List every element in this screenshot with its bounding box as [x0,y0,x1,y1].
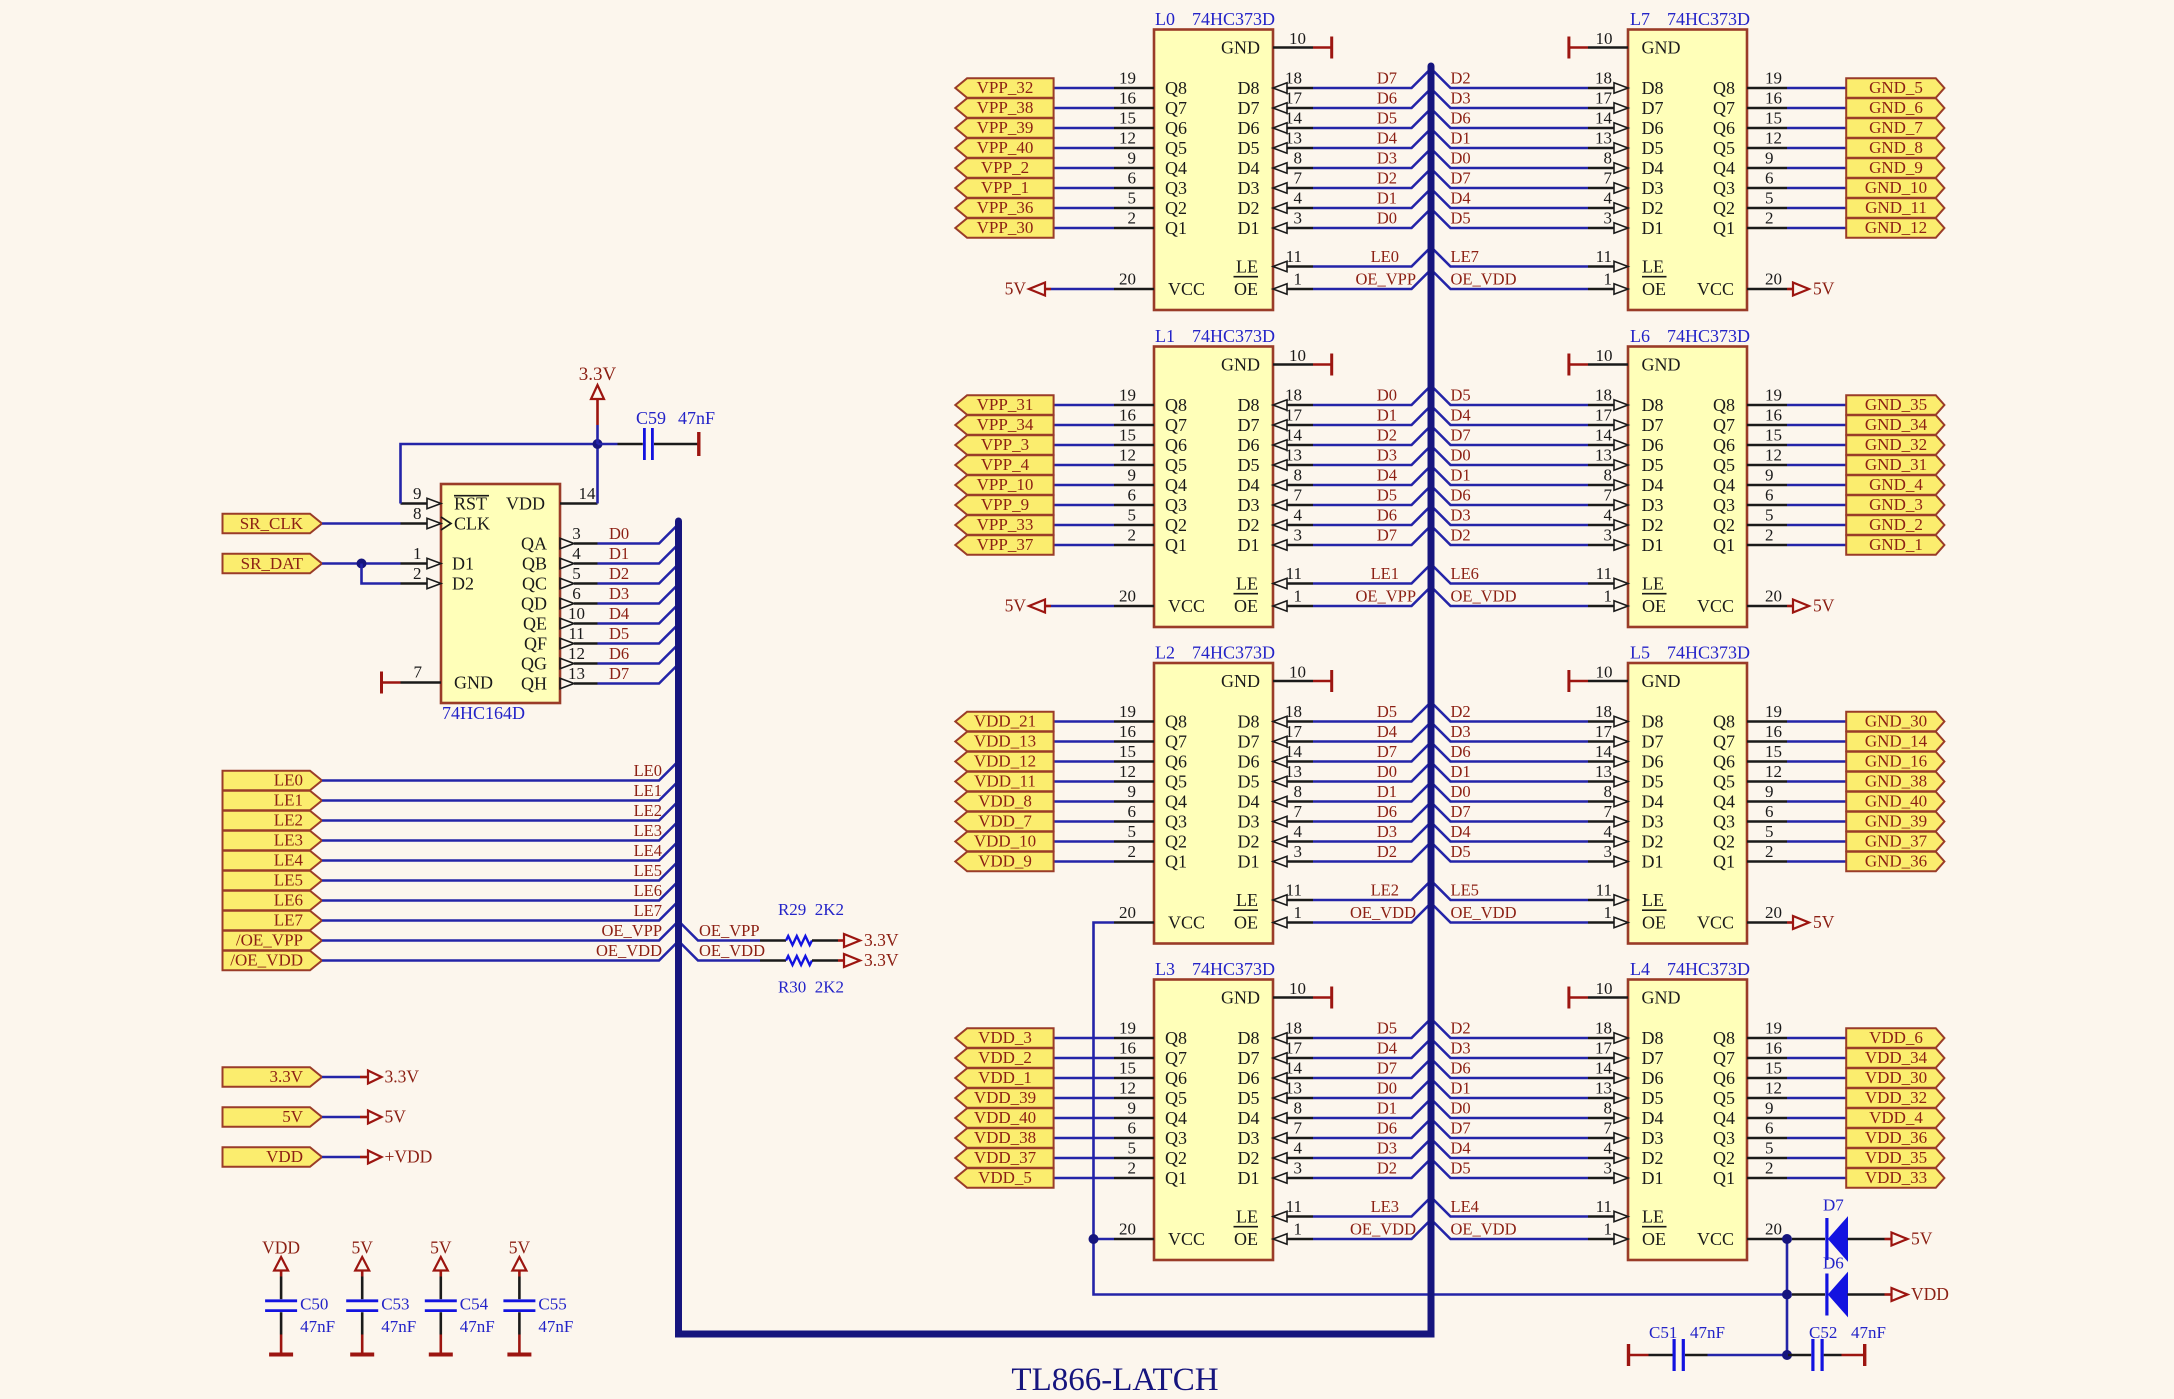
svg-text:D2: D2 [1238,1148,1260,1168]
L4 pin 20 VCC [1697,1220,1787,1249]
wire: L6.Q5 to flag GND_31 [1787,464,1846,467]
svg-text:3: 3 [1604,526,1613,545]
latch L2 74HC373D body [1154,643,1275,944]
svg-text:GND_30: GND_30 [1865,712,1927,731]
wire: flag VDD_7 to L2.Q3 [1054,820,1114,823]
flag LE1 [223,791,323,811]
wire net D0: L1.D8 to center bus [1313,386,1431,406]
capacitor C54 47nF [425,1277,495,1337]
svg-text:D8: D8 [1642,78,1664,98]
L7 pin 15 Q6 [1713,109,1787,138]
L6 pin 10 GND [1588,346,1681,374]
flag GND_8 [1846,138,1944,158]
svg-text:D6: D6 [1377,506,1397,525]
svg-text:6: 6 [1765,486,1774,505]
L7 pin 7 D3 (input arrow) [1588,169,1664,198]
svg-text:VPP_39: VPP_39 [977,118,1034,137]
junction: 3.3V node [593,439,603,449]
wire: L4.Q3 to flag VDD_36 [1787,1137,1846,1140]
svg-text:10: 10 [1596,29,1613,48]
wire: SR_DAT branch to D2 pin [362,564,401,584]
L4 pin 1 OE-bar (input arrow) [1588,1220,1667,1249]
svg-text:D0: D0 [609,524,629,543]
svg-text:D7: D7 [1451,1119,1471,1138]
svg-text:L7: L7 [1630,9,1650,29]
svg-text:LE5: LE5 [634,861,662,880]
L1 pin 14 D6 (input arrow) [1238,426,1314,455]
wire net LE6: center bus to L6.LE [1431,564,1588,584]
svg-text:GND: GND [1642,671,1681,691]
svg-text:GND_11: GND_11 [1865,198,1927,217]
svg-text:OE_VPP: OE_VPP [601,921,662,940]
flag GND_9 [1846,158,1944,178]
svg-text:74HC373D: 74HC373D [1192,643,1275,663]
power port 5V above C53 [352,1238,374,1277]
L0 pin 1 OE-bar (input arrow) [1234,270,1314,299]
74HC164D pin 8 CLK (input arrow + clock wedge) [401,504,491,534]
wire: RST pin to 3.3V node (loop over top) [401,444,598,504]
wire: SR_CLK to CLK pin [322,522,401,525]
L5 pin 11 LE (input arrow) [1588,881,1664,910]
svg-text:C51: C51 [1649,1323,1677,1342]
svg-text:GND_7: GND_7 [1869,118,1923,137]
L1 pin 16 Q7 [1114,406,1187,435]
L7 pin 18 D8 (input arrow) [1588,69,1664,98]
wire net D1: center bus to L4.D5 [1431,1079,1588,1099]
L2 pin 5 Q2 [1114,822,1187,851]
svg-text:13: 13 [568,664,585,683]
flag VPP_34 [955,415,1053,435]
svg-text:D6: D6 [1823,1254,1844,1273]
svg-text:VPP_3: VPP_3 [981,435,1029,454]
svg-text:Q8: Q8 [1165,1028,1187,1048]
L1 pin 15 Q6 [1114,426,1187,455]
wire net OE_VDD: center bus to L7.OE [1431,270,1588,290]
svg-text:OE_VDD: OE_VDD [1451,270,1517,289]
svg-text:D6: D6 [1238,435,1260,455]
svg-text:20: 20 [1119,587,1136,606]
svg-text:47nF: 47nF [300,1317,335,1336]
flag VDD_6 [1846,1028,1944,1048]
svg-text:D5: D5 [1238,138,1260,158]
svg-text:D3: D3 [1642,178,1664,198]
flag VDD_10 [955,832,1053,852]
svg-text:D4: D4 [1451,1139,1471,1158]
flag VPP_33 [955,515,1053,535]
svg-text:OE_VDD: OE_VDD [1451,903,1517,922]
svg-text:D7: D7 [1377,526,1397,545]
svg-text:D7: D7 [609,664,629,683]
wire net D0: L3.D5 to center bus [1313,1079,1431,1099]
svg-text:Q4: Q4 [1713,158,1735,178]
svg-text:20: 20 [1119,1220,1136,1239]
74HC164D pin 10 QE (output arrow) [523,604,598,633]
svg-text:17: 17 [1595,1039,1613,1058]
svg-text:D3: D3 [1642,811,1664,831]
flag /OE_VPP [223,931,323,951]
svg-text:D8: D8 [1642,1028,1664,1048]
svg-text:D2: D2 [609,564,629,583]
svg-text:3: 3 [1294,1159,1303,1178]
latch L7 74HC373D body [1628,9,1750,310]
L1 pin 11 LE (input arrow) [1236,564,1313,593]
flag GND_34 [1846,415,1944,435]
wire: L4.Q2 to flag VDD_35 [1787,1157,1846,1160]
svg-text:L2: L2 [1155,643,1175,663]
wire: flag VPP_31 to L1.Q8 [1054,404,1114,407]
svg-text:Q4: Q4 [1165,158,1187,178]
power port 5V at L5 VCC [1787,912,1835,932]
wire net D5: center bus to L7.D1 [1431,209,1588,229]
svg-text:16: 16 [1765,1039,1782,1058]
L0 pin 15 Q6 [1114,109,1187,138]
svg-text:D6: D6 [1377,89,1397,108]
flag GND_31 [1846,455,1944,475]
wire net OE_VDD: L2.OE to center bus [1313,903,1431,923]
svg-text:C54: C54 [460,1295,489,1314]
svg-text:5: 5 [1128,1139,1137,1158]
wire net D6: L2.D3 to center bus [1313,802,1431,822]
wire net D5: L1.D3 to center bus [1313,486,1431,506]
svg-text:20: 20 [1765,903,1782,922]
wire: C51 to C52 node [1708,1354,1787,1357]
flag LE4 [223,851,323,871]
svg-text:4: 4 [1294,506,1303,525]
svg-text:8: 8 [1294,782,1303,801]
svg-text:D3: D3 [1451,1039,1471,1058]
ground bar at C52 right [1842,1344,1865,1366]
svg-text:D7: D7 [1238,1048,1260,1068]
svg-text:D6: D6 [1451,742,1471,761]
svg-text:CLK: CLK [454,514,490,534]
svg-text:D3: D3 [1238,178,1260,198]
L0 pin 13 D5 (input arrow) [1238,129,1314,158]
svg-text:VPP_38: VPP_38 [977,98,1034,117]
capacitor C51 47nF [1649,1323,1725,1371]
wire net D3: center bus to L7.D7 [1431,89,1588,109]
svg-text:GND_39: GND_39 [1865,812,1927,831]
L3 pin 9 Q4 [1114,1099,1187,1128]
svg-text:Q6: Q6 [1165,118,1187,138]
wire: L5.Q2 to flag GND_37 [1787,840,1846,843]
svg-text:D5: D5 [1377,1019,1397,1038]
svg-text:15: 15 [1765,1059,1782,1078]
svg-text:OE: OE [1234,596,1258,616]
L4 pin 15 Q6 [1713,1059,1787,1088]
L6 pin 20 VCC [1697,587,1787,616]
svg-text:LE5: LE5 [1451,881,1479,900]
ground bar at L2 pin 10 [1313,670,1332,692]
svg-text:VCC: VCC [1168,912,1205,932]
svg-text:8: 8 [1294,149,1303,168]
svg-text:Q7: Q7 [1165,98,1187,118]
svg-text:C59: C59 [636,408,666,428]
svg-text:D3: D3 [1451,89,1471,108]
svg-text:VDD: VDD [266,1147,303,1166]
wire: L5.Q3 to flag GND_39 [1787,820,1846,823]
flag VDD_7 [955,812,1053,832]
L3 pin 4 D2 (input arrow) [1238,1139,1314,1168]
svg-text:14: 14 [579,484,597,503]
wire: flag VDD_39 to L3.Q5 [1054,1097,1114,1100]
svg-text:D4: D4 [1377,1039,1397,1058]
svg-text:5V: 5V [352,1238,374,1258]
svg-text:GND_35: GND_35 [1865,395,1927,414]
wire net D4: L0.D5 to center bus [1313,129,1431,149]
svg-text:Q7: Q7 [1713,415,1735,435]
wire: L4.Q4 to flag VDD_4 [1787,1117,1846,1120]
L1 pin 19 Q8 [1114,386,1187,415]
wire: flag VPP_33 to L1.Q2 [1054,524,1114,527]
svg-text:74HC373D: 74HC373D [1192,326,1275,346]
L2 pin 1 OE-bar (input arrow) [1234,903,1314,932]
L5 pin 8 D4 (input arrow) [1588,782,1664,811]
svg-text:Q8: Q8 [1165,711,1187,731]
wire: flag VPP_38 to L0.Q7 [1054,107,1114,110]
svg-text:D5: D5 [1642,455,1664,475]
L0 pin 12 Q5 [1114,129,1187,158]
flag VDD_3 [955,1028,1053,1048]
svg-text:D2: D2 [1238,515,1260,535]
svg-text:Q1: Q1 [1713,851,1735,871]
wire net D0: L2.D5 to center bus [1313,762,1431,782]
svg-text:8: 8 [1604,782,1613,801]
wire: L5.Q6 to flag GND_16 [1787,760,1846,763]
latch L6 74HC373D body [1628,326,1750,627]
wire net D4: center bus to L7.D2 [1431,189,1588,209]
L0 pin 17 D7 (input arrow) [1238,89,1314,118]
svg-text:1: 1 [1604,587,1613,606]
wire: L7.Q8 to flag GND_5 [1787,87,1846,90]
wire net OE_VPP: L1.OE to center bus [1313,587,1431,607]
latch L0 74HC373D body [1154,9,1275,310]
power port 5V at D7 [1885,1229,1933,1249]
svg-text:GND_31: GND_31 [1865,455,1927,474]
wire: SR_DAT to D1 pin [322,562,401,565]
svg-text:D2: D2 [1377,169,1397,188]
svg-text:2: 2 [1765,526,1774,545]
L0 pin 6 Q3 [1114,169,1187,198]
svg-text:LE1: LE1 [634,781,662,800]
L1 pin 8 D4 (input arrow) [1238,466,1314,495]
svg-text:C53: C53 [381,1295,409,1314]
wire net D1: L3.D4 to center bus [1313,1099,1431,1119]
wire: L6.Q2 to flag GND_2 [1787,524,1846,527]
svg-text:D7: D7 [1451,169,1471,188]
svg-text:2: 2 [1128,842,1137,861]
wire: flag VDD_40 to L3.Q4 [1054,1117,1114,1120]
wire: L7.Q4 to flag GND_9 [1787,167,1846,170]
svg-text:18: 18 [1595,69,1612,88]
svg-text:8: 8 [1294,1099,1303,1118]
wire: flag VDD_9 to L2.Q1 [1054,860,1114,863]
wire: flag VPP_40 to L0.Q5 [1054,147,1114,150]
wire: L7.Q1 to flag GND_12 [1787,227,1846,230]
L6 pin 14 D6 (input arrow) [1588,426,1664,455]
L3 pin 13 D5 (input arrow) [1238,1079,1314,1108]
svg-text:11: 11 [1596,564,1612,583]
svg-text:1: 1 [1294,587,1303,606]
svg-text:D4: D4 [1238,475,1260,495]
svg-text:14: 14 [1285,742,1303,761]
capacitor C53 47nF [346,1277,416,1337]
svg-text:OE_VPP: OE_VPP [1355,270,1416,289]
svg-text:8: 8 [1604,149,1613,168]
wire: L4.Q7 to flag VDD_34 [1787,1057,1846,1060]
svg-text:D5: D5 [1451,1159,1471,1178]
flag LE6 [223,891,323,911]
L2 pin 11 LE (input arrow) [1236,881,1313,910]
svg-text:D0: D0 [1451,782,1471,801]
wire net D5: L3.D8 to center bus [1313,1019,1431,1039]
svg-text:6: 6 [572,584,581,603]
resistor R30 2K2 [760,956,844,997]
svg-text:5: 5 [1765,189,1774,208]
L1 pin 9 Q4 [1114,466,1187,495]
svg-text:GND: GND [1642,37,1681,57]
svg-text:1: 1 [1294,1220,1303,1239]
svg-text:5: 5 [1765,506,1774,525]
svg-text:LE: LE [1236,1206,1258,1226]
74HC164D pin 14 VDD [506,484,598,514]
svg-text:OE: OE [1642,596,1666,616]
svg-text:9: 9 [1128,1099,1137,1118]
svg-text:19: 19 [1765,69,1782,88]
svg-text:D6: D6 [1377,1119,1397,1138]
svg-text:GND_2: GND_2 [1869,515,1923,534]
wire: L4.Q5 to flag VDD_32 [1787,1097,1846,1100]
svg-text:3: 3 [1294,842,1303,861]
svg-text:VCC: VCC [1697,279,1734,299]
L6 pin 3 D1 (input arrow) [1588,526,1664,555]
L2 pin 16 Q7 [1114,722,1187,751]
svg-text:13: 13 [1285,129,1302,148]
flag GND_35 [1846,395,1944,415]
svg-text:11: 11 [1286,1197,1302,1216]
svg-text:7: 7 [1294,486,1303,505]
svg-text:19: 19 [1119,702,1136,721]
wire net D3: center bus to L6.D2 [1431,506,1588,526]
wire: flag VPP_9 to L1.Q3 [1054,504,1114,507]
L6 pin 19 Q8 [1713,386,1787,415]
L6 pin 12 Q5 [1713,446,1787,475]
svg-text:R29 2K2: R29 2K2 [778,900,844,919]
wire net D7: L1.D1 to center bus [1313,526,1431,546]
L1 pin 17 D7 (input arrow) [1238,406,1314,435]
L7 pin 16 Q7 [1713,89,1787,118]
svg-text:19: 19 [1119,69,1136,88]
svg-text:Q6: Q6 [1165,751,1187,771]
svg-text:/OE_VPP: /OE_VPP [236,931,303,950]
L7 pin 4 D2 (input arrow) [1588,189,1664,218]
svg-text:1: 1 [413,544,422,563]
flag GND_1 [1846,535,1944,555]
svg-text:L4: L4 [1630,959,1650,979]
svg-text:GND_1: GND_1 [1869,535,1923,554]
power port 3.3V [360,1067,419,1087]
svg-text:D5: D5 [1238,455,1260,475]
L1 pin 4 D2 (input arrow) [1238,506,1314,535]
svg-text:1: 1 [1294,903,1303,922]
svg-text:Q6: Q6 [1713,435,1735,455]
svg-text:D7: D7 [1238,98,1260,118]
L2 pin 14 D6 (input arrow) [1238,742,1314,771]
svg-text:D0: D0 [1451,149,1471,168]
wire: flag VDD_3 to L3.Q8 [1054,1037,1114,1040]
svg-text:5V: 5V [509,1238,531,1258]
svg-text:LE7: LE7 [634,901,662,920]
svg-text:Q7: Q7 [1165,1048,1187,1068]
svg-text:LE4: LE4 [1451,1197,1479,1216]
L0 pin 2 Q1 [1114,209,1187,238]
L3 pin 2 Q1 [1114,1159,1187,1188]
svg-text:C50: C50 [300,1295,328,1314]
svg-text:D5: D5 [1238,1088,1260,1108]
wire: L3 VCC stub [1094,1238,1115,1241]
svg-text:VPP_32: VPP_32 [977,78,1034,97]
svg-text:15: 15 [1765,742,1782,761]
L0 pin 4 D2 (input arrow) [1238,189,1314,218]
L3 pin 10 GND [1221,979,1313,1007]
svg-text:VPP_4: VPP_4 [981,455,1030,474]
svg-text:4: 4 [1604,1139,1613,1158]
svg-text:18: 18 [1285,386,1302,405]
wire net D1: center bus to L7.D5 [1431,129,1588,149]
svg-text:Q6: Q6 [1165,435,1187,455]
svg-text:16: 16 [1119,722,1136,741]
svg-text:74HC373D: 74HC373D [1667,959,1750,979]
L7 pin 10 GND [1588,29,1681,57]
flag LE2 [223,811,323,831]
svg-text:D6: D6 [1451,486,1471,505]
74HC164D pin 2 D2 (input arrow) [401,564,475,594]
svg-text:5: 5 [1128,506,1137,525]
svg-text:GND_12: GND_12 [1865,218,1927,237]
svg-text:LE6: LE6 [1451,564,1479,583]
flag VDD_30 [1846,1068,1944,1088]
svg-text:Q2: Q2 [1165,1148,1187,1168]
svg-text:LE2: LE2 [274,811,303,830]
wire net D4: center bus to L5.D2 [1431,822,1588,842]
flag GND_40 [1846,792,1944,812]
ground bar below C54 [429,1335,453,1355]
svg-text:Q7: Q7 [1713,98,1735,118]
svg-text:4: 4 [1294,1139,1303,1158]
flag VPP_36 [955,198,1053,218]
wire net D5: center bus to L5.D1 [1431,842,1588,862]
wire net LE2: L2.LE to center bus [1313,881,1431,901]
svg-text:+VDD: +VDD [385,1147,433,1167]
wire net D4: L2.D7 to center bus [1313,722,1431,742]
L3 pin 19 Q8 [1114,1019,1187,1048]
wire net LE5: center bus to L5.LE [1431,881,1588,901]
L7 pin 13 D5 (input arrow) [1588,129,1664,158]
svg-text:D0: D0 [1377,1079,1397,1098]
svg-text:D5: D5 [1451,209,1471,228]
flag VDD_13 [955,732,1053,752]
L6 pin 5 Q2 [1713,506,1787,535]
wire: flag VDD_8 to L2.Q4 [1054,800,1114,803]
svg-text:19: 19 [1765,386,1782,405]
wire net D6: center bus to L4.D6 [1431,1059,1588,1079]
svg-text:VCC: VCC [1697,912,1734,932]
svg-text:QB: QB [522,553,547,573]
wire: flag VPP_3 to L1.Q6 [1054,444,1114,447]
svg-text:GND_5: GND_5 [1869,78,1923,97]
svg-text:D7: D7 [1642,98,1664,118]
svg-text:D1: D1 [1642,851,1664,871]
wire net D6: center bus to L7.D6 [1431,109,1588,129]
